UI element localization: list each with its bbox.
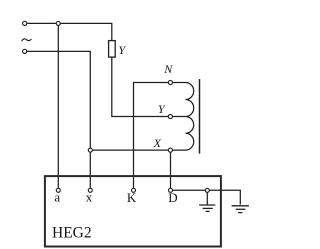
svg-text:X: X bbox=[153, 136, 162, 150]
ground G2 (external earth) bbox=[232, 206, 249, 213]
svg-text:K: K bbox=[127, 190, 137, 205]
node N terminal bbox=[168, 80, 172, 84]
junction C (ground tie) bbox=[205, 188, 209, 192]
AC symbol ~ bbox=[22, 39, 32, 41]
svg-text:x: x bbox=[86, 189, 93, 204]
wire: top supply line from input terminal to resistor corner bbox=[27, 23, 112, 40]
svg-text:HEG2: HEG2 bbox=[52, 225, 92, 242]
wire: X tap down to terminal D bbox=[170, 150, 172, 188]
wire: N tap left and down to terminal K bbox=[134, 83, 186, 189]
AC source terminal (bottom) bbox=[23, 49, 27, 53]
wire: ground stem inside box bbox=[206, 190, 208, 204]
wire: resistor bottom down, corner, right to Y tap bbox=[112, 57, 186, 116]
svg-text:D: D bbox=[168, 190, 177, 205]
wire: junction A down to terminal a bbox=[57, 23, 59, 188]
svg-text:a: a bbox=[54, 189, 60, 204]
terminal K bbox=[132, 188, 136, 192]
junction A (top supply) bbox=[56, 21, 60, 25]
node X terminal bbox=[168, 148, 172, 152]
terminal D bbox=[169, 188, 173, 192]
wire: X tap from junction B to winding axis bbox=[90, 149, 185, 151]
svg-text:Y: Y bbox=[118, 43, 126, 57]
transformer core bbox=[199, 79, 201, 154]
terminal x bbox=[88, 188, 92, 192]
svg-text:Y: Y bbox=[158, 102, 166, 116]
node Y terminal bbox=[168, 114, 172, 118]
svg-text:N: N bbox=[163, 62, 173, 76]
transformer T1 winding (4 loops) bbox=[186, 83, 194, 151]
resistor Y bbox=[109, 41, 116, 58]
AC source terminal (top) bbox=[23, 21, 27, 25]
wire: terminal D right through box edge to earth corner and down bbox=[171, 190, 241, 204]
ground G1 (inside box) bbox=[199, 205, 215, 211]
HEG2 box bbox=[45, 176, 221, 246]
junction B (x / X tap) bbox=[88, 148, 92, 152]
terminal a bbox=[56, 188, 60, 192]
wire: lower supply line right, corner, down to terminal x bbox=[27, 51, 90, 188]
